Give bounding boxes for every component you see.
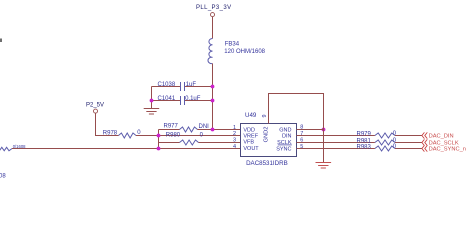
svg-text:3: 3 [233,137,236,143]
svg-text:SYNC: SYNC [276,146,291,152]
svg-text:1uF: 1uF [186,82,197,88]
svg-text:VREF: VREF [243,133,258,139]
svg-text:P2_5V: P2_5V [86,102,104,108]
svg-text:7: 7 [300,131,303,137]
svg-text:2: 2 [233,131,236,137]
svg-text:C1038: C1038 [158,82,176,88]
svg-text:4: 4 [233,144,236,150]
svg-text:C1041: C1041 [158,96,176,102]
svg-text:GND2: GND2 [263,127,269,143]
svg-text:DAC_DIN: DAC_DIN [429,134,454,140]
svg-text:U49: U49 [245,112,257,119]
svg-text:120 OHM/1608: 120 OHM/1608 [224,49,265,55]
svg-text:9: 9 [262,114,268,117]
svg-text:R983: R983 [357,144,372,150]
svg-text:FB34: FB34 [225,41,240,47]
svg-text:VOUT: VOUT [243,146,259,152]
svg-text:DIN: DIN [282,133,292,139]
svg-text:VFB: VFB [243,140,254,146]
svg-text:R980: R980 [166,133,181,139]
svg-text:R979: R979 [357,131,372,137]
svg-text:DNI: DNI [199,124,210,130]
svg-text:0.1uF: 0.1uF [185,96,201,102]
svg-text:0/1608: 0/1608 [13,144,26,149]
svg-text:1: 1 [233,125,236,131]
svg-text:R978: R978 [103,130,118,136]
svg-text:R977: R977 [164,124,179,130]
svg-text:PLL_P3_3V: PLL_P3_3V [196,5,231,11]
svg-text:DAC8531IDRB: DAC8531IDRB [246,160,288,167]
svg-text:DAC_SYNC_n: DAC_SYNC_n [429,147,466,153]
svg-text:08: 08 [0,173,6,179]
